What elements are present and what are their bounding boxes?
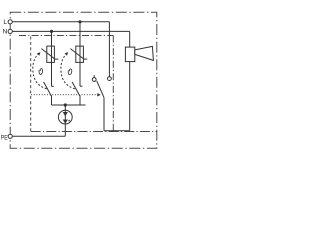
wire N drop to horn [129,31,131,47]
device outline dash-dot border [10,12,157,148]
svg-text:PE: PE [1,135,8,142]
wire bottom run to horn [104,130,130,132]
inner separator left (dashed) [30,37,32,132]
node junction on N line [50,30,53,33]
node junction on bus [64,103,67,106]
inner separator right (dash-dot) [112,36,114,132]
wire spark gap to PE [64,124,66,136]
thermal disconnect arrow 2 [61,52,75,89]
disconnect switch 2 contact tick [80,85,82,87]
horn cone [135,46,154,60]
wire L line [12,21,109,23]
disconnect switch 1 contact tick [52,85,54,87]
inner separator top (dash-dot) [19,35,113,37]
wire changeover common down [103,98,105,131]
wire varistor R1 branch [51,31,53,86]
wire horn bottom riser [129,62,131,131]
thermal label theta 1 [39,69,43,75]
spark gap F1 (circle with arrows) [58,110,72,124]
thermal label theta 2 [68,69,72,75]
disconnect switch 2 blade [72,82,80,96]
wire varistor R2 branch [79,22,81,86]
mechanical linkage dotted line [32,94,97,96]
wire N line [12,30,130,32]
wire PE line [12,135,65,137]
changeover contact fixed B [108,77,112,81]
changeover contact fixed A [93,75,95,77]
terminal L [8,20,12,24]
svg-text:N: N [3,29,8,36]
wire summation bus [52,104,86,106]
node junction on L line [78,20,81,23]
wire switch 2 lower stub [79,95,81,105]
disconnect switch 1 blade [44,82,52,96]
wire switch 1 lower stub [51,95,53,105]
varistor RV2 [70,46,87,62]
horn / acoustic signaller body [125,47,134,62]
terminal PE [8,134,12,138]
thermal disconnect arrow 1 [33,52,47,89]
varistor RV1 [41,46,58,62]
changeover blade [97,81,104,98]
inner separator bottom (dash-dot) [31,131,157,133]
linkage arrowhead [97,93,101,96]
wire L drop to contact [108,22,110,77]
svg-text:L: L [3,19,7,26]
wire bus to spark gap [64,105,66,110]
terminal N [8,29,12,33]
